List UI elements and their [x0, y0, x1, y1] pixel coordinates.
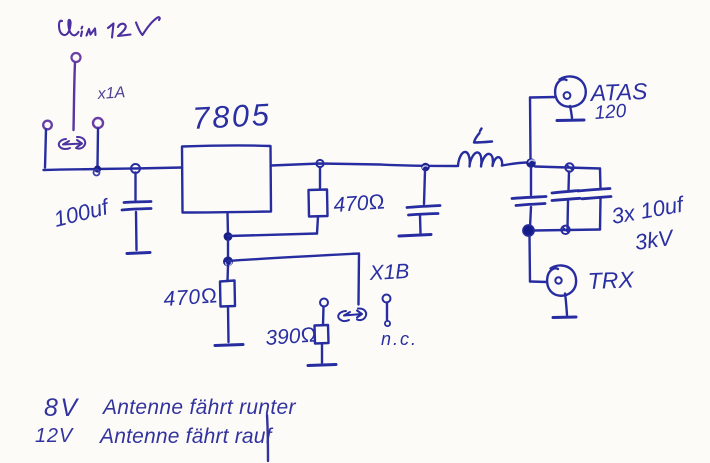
node junction X1B — [223, 257, 233, 267]
node junction top rail — [565, 163, 573, 171]
ground 390R — [308, 365, 336, 366]
wire C3 bottom — [530, 207, 531, 228]
resistor R1 470R body — [220, 281, 235, 307]
connector X1A right terminal — [93, 118, 103, 128]
wire L to node — [502, 163, 528, 166]
connector TRX socket — [547, 265, 576, 317]
node junction at 100uf — [131, 164, 140, 173]
svg-text:TRX: TRX — [587, 266, 636, 294]
wire pin2 to X1B node — [227, 240, 229, 261]
node junction pin2 — [224, 232, 233, 241]
svg-text:120: 120 — [594, 101, 628, 124]
inductor L coil — [458, 152, 502, 167]
svg-text:390Ω: 390Ω — [265, 323, 318, 350]
wire 390R bottom lead — [321, 344, 323, 364]
svg-text:x1A: x1A — [96, 84, 126, 103]
ground R1 — [215, 345, 243, 346]
wire 7805 pin2 down — [226, 213, 229, 236]
stroke f descender — [267, 415, 268, 461]
wire nc lead — [386, 303, 388, 320]
wire top rail right — [535, 167, 600, 169]
wire X1B run — [228, 254, 359, 305]
ground 100uf — [127, 253, 150, 254]
svg-text:7805: 7805 — [192, 97, 273, 136]
wire from Uin terminal down — [74, 63, 76, 131]
wire right branch down — [599, 169, 602, 189]
resistor R2 470R body — [309, 190, 328, 217]
node junction bottom mid — [561, 226, 569, 234]
svg-text:12V: 12V — [35, 425, 74, 447]
label L — [474, 129, 492, 143]
capacitor C2 10uf — [407, 171, 440, 234]
wire ATAS stub — [530, 96, 556, 99]
connector X1B pin circle — [320, 299, 328, 307]
X1A mating arrows — [59, 137, 85, 149]
node junction bottom left filled — [523, 225, 535, 237]
connector nc pin circle — [383, 295, 391, 303]
node nc open end — [385, 321, 390, 326]
resistor R3 390R body — [315, 325, 329, 344]
connector X1A left terminal — [43, 121, 52, 130]
node junction at X1A — [94, 165, 102, 175]
wire C4 bottom lead — [566, 201, 569, 228]
node junction at C2 — [421, 163, 430, 172]
capacitor C5 plates — [578, 189, 611, 199]
wire C5 bottom — [599, 199, 602, 230]
wire junction to R2 — [229, 234, 318, 237]
capacitor C4 plates — [552, 191, 580, 201]
wire C4 top lead — [567, 172, 570, 191]
svg-text:470Ω: 470Ω — [333, 190, 386, 217]
wire R2 bottom lead — [317, 217, 318, 234]
svg-text:Antenne fährt rauf: Antenne fährt rauf — [98, 425, 274, 448]
node junction L out — [526, 158, 536, 168]
wire TRX stub — [530, 280, 547, 283]
regulator U1 7805 box — [182, 145, 271, 212]
wire X1A left lead — [45, 130, 46, 168]
wire bottom rail — [533, 230, 600, 231]
ground C2 — [399, 235, 431, 237]
wire to TRX down — [528, 236, 531, 282]
svg-text:X1B: X1B — [368, 260, 410, 285]
wire to ATAS up — [529, 98, 532, 159]
capacitor 100uf — [122, 173, 151, 251]
terminal circle Uin — [72, 53, 81, 62]
svg-text:470Ω: 470Ω — [163, 284, 219, 311]
node junction at R2 top — [316, 160, 323, 167]
wire rail from 7805 to L — [271, 164, 457, 167]
svg-text:8V: 8V — [44, 394, 80, 422]
wire R1 bottom lead — [227, 307, 230, 343]
wire R2 top lead — [319, 167, 321, 190]
capacitor C3 plates — [512, 197, 546, 206]
svg-text:n.c.: n.c. — [381, 329, 418, 349]
wire R1 top lead — [226, 266, 229, 282]
wire node to cap bank — [530, 167, 532, 195]
wire main rail left — [44, 168, 183, 171]
connector ATAS socket — [555, 76, 586, 120]
X1B mating arrows — [338, 308, 366, 321]
wire 390R top lead — [322, 307, 325, 326]
wire X1A right lead — [96, 129, 99, 167]
label Uin 12V — [59, 17, 160, 37]
